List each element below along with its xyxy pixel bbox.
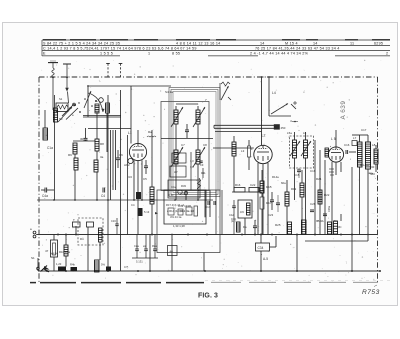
svg-text:C12: C12 <box>229 213 234 217</box>
svg-text:C8: C8 <box>203 143 207 147</box>
svg-text:S2: S2 <box>59 117 63 121</box>
svg-text:M 15 4: M 15 4 <box>285 41 298 45</box>
svg-text:8 55: 8 55 <box>172 52 180 56</box>
svg-text:5.131: 5.131 <box>136 260 143 264</box>
svg-text:S1: S1 <box>59 97 63 101</box>
svg-text:C16: C16 <box>310 169 316 173</box>
svg-text:L3: L3 <box>241 149 245 153</box>
svg-text:C 14,4 1 2 93 7 8 5 5,75: C 14,4 1 2 93 7 8 5 5,7524,41 1797 15 74… <box>43 46 197 50</box>
svg-text:R24: R24 <box>316 177 322 181</box>
svg-text:C2a: C2a <box>134 244 139 248</box>
svg-text:R33: R33 <box>181 184 186 188</box>
svg-text:3a: 3a <box>100 155 104 159</box>
svg-text:C6: C6 <box>119 153 123 157</box>
svg-text:47: 47 <box>45 249 49 253</box>
svg-text:C26: C26 <box>310 202 316 206</box>
svg-text:C4a: C4a <box>42 194 48 198</box>
svg-text:C7: C7 <box>181 143 185 147</box>
svg-text:3,8: 3,8 <box>190 165 194 169</box>
svg-text:C26a: C26a <box>328 205 331 212</box>
svg-text:1: 1 <box>148 52 150 56</box>
svg-text:L4: L4 <box>272 91 276 95</box>
svg-text:k4 R4: k4 R4 <box>51 252 59 256</box>
svg-text:R14a: R14a <box>272 175 279 179</box>
svg-text:R9: R9 <box>68 153 72 157</box>
svg-text:76 25 17 84 41,26,44 24 33 63: 76 25 17 84 41,26,44 24 33 63 47 54 33 3… <box>255 46 340 50</box>
svg-text:30: 30 <box>80 137 84 141</box>
svg-text:R19: R19 <box>291 187 297 191</box>
svg-text:T: T <box>73 218 75 222</box>
svg-text:C34: C34 <box>258 246 264 250</box>
svg-text:L5a: L5a <box>287 131 292 135</box>
svg-text:C4: C4 <box>101 194 105 198</box>
svg-text:S 84 22 75 + 2 1 5 5 4 24 3: S 84 22 75 + 2 1 5 5 4 24 34 34 24 25 35 <box>43 41 120 45</box>
svg-text:C23: C23 <box>268 213 274 217</box>
svg-text:C9: C9 <box>200 163 204 167</box>
svg-text:5%: 5% <box>101 263 105 267</box>
svg-text:S4 1a: S4 1a <box>165 90 173 94</box>
svg-text:R4b: R4b <box>70 263 75 267</box>
svg-text:R4: R4 <box>80 237 84 241</box>
svg-text:1,20: 1,20 <box>56 262 62 266</box>
svg-text:A 639: A 639 <box>340 101 347 120</box>
svg-text:3C: 3C <box>338 225 342 229</box>
svg-text:5.13: 5.13 <box>144 210 150 214</box>
svg-text:C16: C16 <box>344 143 350 147</box>
svg-text:L7: L7 <box>353 136 357 140</box>
svg-text:L1: L1 <box>128 131 132 135</box>
svg-text:C9: C9 <box>240 210 244 214</box>
svg-text:4 8 6 14 11 12 13 16 14: 4 8 6 14 11 12 13 16 14 <box>176 41 220 45</box>
svg-text:Ra: Ra <box>148 130 152 134</box>
svg-text:1,3: 1,3 <box>190 159 194 163</box>
svg-text:C1a: C1a <box>47 146 53 150</box>
svg-text:3B 3A: 3B 3A <box>316 219 324 223</box>
svg-text:C17: C17 <box>361 128 367 132</box>
svg-text:L8: L8 <box>372 143 376 147</box>
svg-text:450: 450 <box>281 126 286 130</box>
svg-text:R753: R753 <box>362 289 380 296</box>
svg-text:C4: C4 <box>131 203 135 207</box>
svg-text:14: 14 <box>260 41 265 45</box>
svg-text:R15: R15 <box>266 185 272 189</box>
svg-text:R.33: R.33 <box>168 193 174 197</box>
svg-text:a R14 (4-4) 4: a R14 (4-4) 4 <box>167 209 183 213</box>
svg-text:R22: R22 <box>324 193 330 197</box>
svg-text:E: E <box>43 52 46 56</box>
svg-text:FIG. 3: FIG. 3 <box>198 293 218 300</box>
svg-text:14: 14 <box>313 41 318 45</box>
svg-text:R25: R25 <box>275 223 281 227</box>
svg-text:11: 11 <box>350 41 354 45</box>
svg-text:L6: L6 <box>303 131 307 135</box>
svg-text:1,33 1,38: 1,33 1,38 <box>173 224 185 228</box>
svg-text:580: 580 <box>370 172 375 176</box>
svg-text:L2: L2 <box>262 134 266 138</box>
svg-text:C5: C5 <box>143 177 147 181</box>
svg-text:343: 343 <box>370 165 375 169</box>
svg-text:60a: 60a <box>281 181 286 185</box>
svg-text:Da: Da <box>243 225 247 229</box>
svg-text:S1: S1 <box>31 256 35 260</box>
svg-text:4% 44 1a: 4% 44 1a <box>170 215 182 219</box>
svg-text:AP: AP <box>174 170 178 174</box>
svg-text:R16: R16 <box>235 183 241 187</box>
svg-text:6295: 6295 <box>374 41 383 45</box>
svg-text:C16: C16 <box>111 219 116 223</box>
svg-text:40: 40 <box>170 250 174 254</box>
svg-text:C15: C15 <box>294 173 300 177</box>
svg-text:C22: C22 <box>250 183 256 187</box>
svg-text:A-5: A-5 <box>263 257 268 261</box>
svg-text:L 5: L 5 <box>331 137 336 141</box>
svg-text:R2: R2 <box>129 175 133 179</box>
svg-text:R8: R8 <box>100 142 104 146</box>
svg-text:2: 2 <box>386 52 388 56</box>
svg-text:46: 46 <box>175 156 178 160</box>
svg-text:(12): (12) <box>231 219 236 223</box>
svg-text:C?): C?) <box>124 265 128 269</box>
svg-text:1 5 5 5: 1 5 5 5 <box>100 52 113 56</box>
svg-text:R1? 4(4) 44 +4: R1? 4(4) 44 +4 <box>166 203 185 207</box>
svg-text:2 4 -1 4,7 44 14 44 4 74 34 2%: 2 4 -1 4,7 44 14 44 4 74 34 2% <box>250 52 309 56</box>
svg-text:R11: R11 <box>201 171 206 175</box>
svg-text:R2a: R2a <box>152 244 157 248</box>
svg-text:C4+: C4+ <box>171 185 176 189</box>
